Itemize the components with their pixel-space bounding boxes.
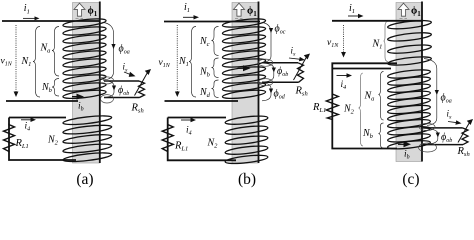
svg-text:Na: Na [364, 91, 375, 103]
svg-text:N1: N1 [178, 56, 189, 68]
svg-text:ϕoa: ϕoa [441, 93, 452, 105]
svg-text:ix: ix [447, 109, 453, 121]
core (a) [73, 3, 100, 164]
flux loop oval tap2 (b) [258, 79, 272, 86]
tap wire lower (c) [423, 144, 463, 146]
brace Na (c) [379, 72, 384, 121]
flux loop oval at winding bottom (a) [101, 95, 114, 103]
resistor Rsh (c) [462, 128, 468, 145]
secondary left wire (b) [168, 118, 236, 161]
svg-text:N2: N2 [207, 138, 219, 150]
top wire (c) [332, 20, 423, 22]
svg-text:ix: ix [291, 46, 297, 58]
winding N2 (c) : 11 turns [387, 68, 430, 150]
current arrow i1 (b) [183, 16, 195, 18]
current arrow i4 (a) [21, 119, 32, 121]
winding N2 (b) : 5 turns [225, 114, 268, 165]
secondary left wire (a) [9, 118, 76, 161]
flux path phi_oc (b) [262, 23, 271, 63]
svg-text:Rsh: Rsh [457, 146, 470, 158]
svg-text:(c): (c) [402, 171, 419, 188]
voltage arrow v1N (a) [15, 25, 17, 93]
svg-text:Nb: Nb [362, 128, 374, 140]
brace Nb (c) [379, 123, 384, 148]
tap wire upper (b) [262, 62, 298, 64]
svg-text:ϕob: ϕob [118, 85, 129, 97]
svg-text:Nb: Nb [199, 67, 211, 79]
svg-text:i4: i4 [341, 80, 347, 91]
svg-text:RL1: RL1 [174, 141, 188, 153]
svg-text:N1: N1 [21, 56, 32, 68]
wiper arrow Rsh (c) [458, 123, 470, 143]
wiper arrow Rsh (a) [135, 73, 148, 96]
svg-text:RL1: RL1 [312, 102, 326, 114]
current arrow ix (a) [124, 72, 131, 75]
brace N2 (c) [359, 73, 364, 146]
primary return wire (c) [332, 63, 397, 68]
flux phi1 arrow (c) [398, 3, 409, 16]
svg-text:N2: N2 [343, 104, 355, 116]
current arrow i1 (a) [23, 17, 36, 19]
brace Nd (b) [212, 80, 219, 98]
flux phi1 arrow (b) [234, 3, 245, 16]
svg-text:Nb: Nb [41, 82, 53, 94]
svg-text:(a): (a) [76, 171, 93, 188]
resistor RL1 (a) [4, 124, 15, 153]
core right-edge conductor (b) [258, 2, 260, 164]
svg-text:N2: N2 [47, 135, 59, 147]
tap wire lower (b) [262, 81, 299, 83]
resistor Rsh (b) [298, 63, 304, 83]
brace Nc (b) [212, 27, 219, 56]
winding N1 (a) : 10 turns [63, 17, 107, 100]
flux path phi_oa (c) [424, 59, 437, 126]
svg-text:Nc: Nc [199, 36, 210, 48]
svg-text:Nd: Nd [199, 87, 211, 99]
svg-text:RL1: RL1 [15, 138, 29, 150]
current arrow ix (c) [448, 122, 457, 123]
secondary left wire (c) [332, 69, 397, 149]
flux loop oval at tap (c) [419, 123, 435, 130]
svg-text:i1: i1 [24, 3, 30, 15]
primary return wire (a) [6, 100, 78, 102]
current arrow i1 (c) [348, 15, 359, 17]
flux path phi_ob (b) [262, 63, 274, 82]
brace Nb (a) [52, 79, 59, 97]
wiper arrow Rsh (b) [294, 57, 307, 80]
tap current arrow (b) [238, 67, 245, 69]
svg-text:Rsh: Rsh [295, 86, 308, 98]
svg-text:Na: Na [40, 43, 51, 55]
svg-text:i4: i4 [25, 122, 31, 133]
tap wire upper (a) [104, 80, 139, 82]
brace N1 (c) [384, 22, 389, 62]
flux loop oval at winding bottom (c) [419, 143, 437, 152]
svg-text:i4: i4 [186, 126, 192, 137]
brace Nb (b) [212, 58, 219, 78]
core (b) [232, 3, 258, 164]
current arrow ix (b) [289, 58, 301, 59]
brace N1 (b) [189, 27, 196, 98]
svg-text:(b): (b) [238, 171, 256, 188]
flux loop oval at tap (a) [99, 77, 113, 84]
voltage arrow v1N (b) [176, 25, 178, 93]
svg-text:ϕob: ϕob [441, 132, 452, 144]
flux path phi_ob (c) [424, 128, 438, 144]
current arrow i4 (c) [337, 75, 348, 77]
winding N1 (c) : 6 turns [387, 19, 431, 67]
current arrow i4 (b) [181, 119, 192, 121]
flux path phi_oa (a) [103, 23, 114, 81]
core right-edge conductor (a) [99, 2, 101, 164]
current arrow ib (c) [398, 143, 405, 145]
brace N1 (a) [33, 27, 40, 98]
winding N1 (b) : 10 turns [222, 17, 266, 100]
resistor RL1 (c) [326, 94, 338, 120]
svg-text:ϕoa: ϕoa [119, 44, 130, 56]
flux path phi_od (b) [262, 83, 271, 101]
svg-text:v1N: v1N [327, 38, 339, 49]
svg-text:i1: i1 [349, 3, 355, 15]
tap wire upper (c) [423, 127, 463, 129]
svg-text:v1N: v1N [159, 58, 171, 69]
resistor RL1 (b) [162, 125, 173, 152]
svg-text:ix: ix [123, 62, 129, 74]
svg-text:i1: i1 [184, 2, 190, 14]
tap wire lower (a) [104, 97, 140, 99]
secondary top wire (a) [9, 117, 66, 119]
svg-text:Rsh: Rsh [131, 103, 144, 115]
flux loop oval tap1 (b) [258, 59, 272, 66]
core right-edge conductor (c) [421, 2, 423, 162]
brace Na (a) [52, 27, 59, 77]
top wire (a) [2, 20, 101, 22]
svg-text:ϕod: ϕod [274, 89, 286, 101]
flux phi1 arrow (a) [74, 3, 85, 16]
core (c) [396, 3, 422, 162]
current arrow ib (a) [72, 96, 78, 98]
svg-text:N1: N1 [372, 39, 383, 51]
resistor Rsh (a) [139, 81, 145, 98]
top wire (b) [164, 21, 260, 23]
winding N2 (a) : 5 turns [63, 114, 112, 163]
secondary top wire (b) [168, 117, 226, 119]
svg-text:ϕob: ϕob [277, 66, 288, 78]
svg-text:ϕoc: ϕoc [275, 24, 286, 36]
secondary top wire (c) [332, 68, 391, 70]
primary return wire (b) [165, 100, 239, 102]
flux path phi_ob (a) [104, 81, 115, 98]
svg-text:v1N: v1N [1, 57, 13, 68]
voltage arrow v1N (c) [343, 25, 345, 54]
